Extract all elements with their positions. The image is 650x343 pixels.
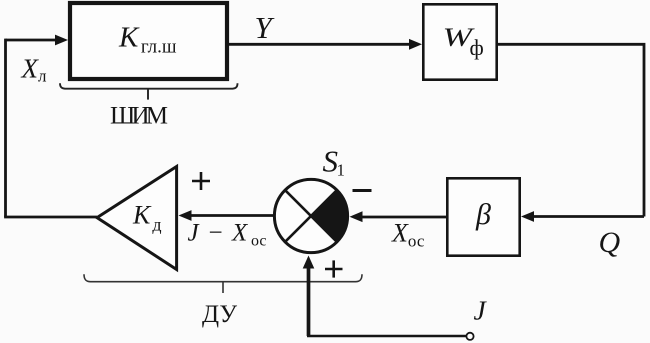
wire: bottom-left horizontal to amplifier apex [4,216,97,219]
wire: summing junction to amplifier, I - X_oc [179,210,274,221]
block beta (feedback gain) [447,178,519,255]
svg-text:Xл: Xл [21,54,48,86]
svg-text:Q: Q [599,226,621,259]
minus sign at summing junction [353,189,372,192]
svg-text:ф: ф [470,35,484,60]
wire: bottom horizontal reference line [307,335,466,338]
brace under PWM block [60,83,238,99]
wire: beta output to summing junction, X_oc [350,211,447,222]
svg-text:J−Xос: J−Xос [188,220,267,250]
brace under DU section [84,274,362,293]
amplifier K_d (triangle) [97,167,177,270]
plus sign at bottom summing input [325,260,343,277]
block K gl.sh (PWM gain) [70,3,227,79]
wire: reference input vertical arrow into summing junction [303,256,315,337]
svg-text:J: J [474,295,488,326]
summing junction S1 [274,179,347,252]
plus sign at amplifier input [192,172,210,190]
wire: left feedback vertical segment [4,39,7,217]
wire: W_f output right then down right side [498,44,644,216]
svg-text:S1: S1 [323,144,346,180]
svg-text:ШИМ: ШИМ [110,102,168,129]
svg-text:Xос: Xос [391,219,425,251]
wire: Kgl.sh output to W_f [229,39,422,50]
wire: right side into beta block [521,211,644,222]
wire: input arrow into Kgl.sh block [6,35,69,46]
svg-text:ДУ: ДУ [202,301,237,328]
svg-text:β: β [475,198,491,231]
terminal: open circle at reference input [466,333,473,340]
svg-text:Y: Y [255,10,275,45]
block W_f (filter) [423,4,496,79]
